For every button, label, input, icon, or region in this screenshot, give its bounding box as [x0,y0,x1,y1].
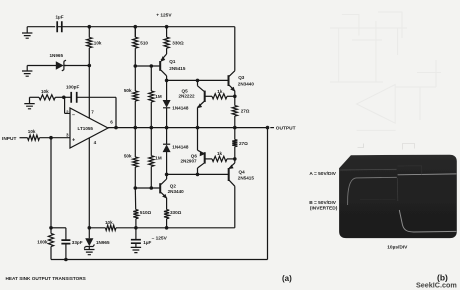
svg-text:50k: 50k [124,88,132,93]
resistor 10k input [20,137,28,139]
svg-text:Q2: Q2 [170,183,177,188]
resistor 330 ohm (bottom) [164,210,169,219]
node pin4 / -125V 10k [88,226,92,230]
scope trace step outline [398,166,422,175]
svg-text:1M: 1M [155,155,162,160]
svg-text:330Ω: 330Ω [170,210,182,215]
scope graticule mid faint [360,198,396,200]
svg-text:+: + [72,137,75,143]
capacitor 33pF [51,227,66,229]
capacitor 1uF (top rail decoupling) [57,21,62,32]
svg-text:2N2907: 2N2907 [181,159,198,164]
node rail/10k [88,25,92,29]
scope trace A falling edge [396,178,399,201]
svg-text:HEAT SINK OUTPUT TRANSISTORS: HEAT SINK OUTPUT TRANSISTORS [6,276,86,281]
svg-text:7: 7 [91,109,94,114]
svg-text:SeekIC.com: SeekIC.com [416,280,457,289]
pin 7 [88,66,90,119]
svg-text:1N965: 1N965 [50,53,64,58]
resistor 510 [134,27,136,38]
svg-text:510Ω: 510Ω [140,210,152,215]
svg-text:1N4148: 1N4148 [172,106,189,111]
resistor 100k [48,234,53,247]
svg-text:Q3: Q3 [238,75,245,80]
resistor 1k (lower driver) [205,158,212,160]
svg-text:1N4148: 1N4148 [172,144,189,149]
resistor 510 ohm (bottom) [133,210,138,219]
svg-text:2N3440: 2N3440 [168,189,185,194]
transistor Q5 2N2222 [196,79,200,83]
op-amp U1 LT1055 [70,108,108,148]
svg-text:OUTPUT: OUTPUT [276,126,296,132]
svg-text:10µs/DIV: 10µs/DIV [387,244,408,250]
capacitor 100pF feedback [64,96,71,98]
diode zener 1N965 (top) [56,61,64,70]
wire feedback vertical to output [115,97,117,127]
svg-text:10k: 10k [41,89,49,94]
svg-text:100k: 100k [37,240,48,245]
svg-text:2N3440: 2N3440 [238,81,255,86]
wire feedback bottom run [51,259,268,261]
pin 2 [65,112,70,114]
resistor 50k upper [134,27,136,38]
svg-text:1µF: 1µF [56,15,64,20]
svg-text:1N965: 1N965 [96,240,110,245]
wire pin3 node down [50,138,52,228]
scope trace A rising edge [348,177,397,205]
svg-text:A = 50V/DIV: A = 50V/DIV [309,171,336,177]
svg-text:1k: 1k [217,151,223,156]
svg-text:Q4: Q4 [239,170,246,175]
scope photo (b) [339,155,457,238]
scope trace B high right [398,173,457,176]
svg-text:1µF: 1µF [143,240,151,245]
svg-text:(a): (a) [282,274,292,283]
wire op-amp output row [108,127,268,129]
svg-text:+ 125V: + 125V [156,13,172,19]
svg-text:B = 50V/DIV: B = 50V/DIV [309,200,337,206]
node Q1 collector / row [165,79,169,83]
wire -125V rail [136,227,235,229]
ground (zener row) [26,66,28,72]
transistor Q4 2N5415 [234,159,236,163]
wire zener row [27,65,56,67]
resistor 1M lower [150,128,152,156]
svg-text:27Ω: 27Ω [241,109,250,114]
svg-text:33pF: 33pF [72,240,83,245]
OUTPUT terminal [270,127,274,129]
resistor 10k (-125V feed) [105,225,116,230]
resistor 27 ohm (upper) [234,96,236,105]
svg-text:2N5415: 2N5415 [169,66,186,71]
svg-text:LT1055: LT1055 [78,126,94,131]
svg-text:–: – [72,112,75,118]
transistor Q1 2N5415 [135,65,160,67]
ground (100pF row) [29,97,31,103]
scope trace B high left [340,168,396,171]
node pin2/100pF [62,96,66,100]
svg-text:– 125V: – 125V [152,235,168,241]
wire output down leg [267,128,269,260]
resistor 10k (to ground at pin2) [30,96,40,98]
node rail/510 [134,25,138,29]
node rail/330 +125V [165,25,169,29]
node input/pin3 [49,136,53,140]
svg-text:50k: 50k [124,153,132,158]
resistor 10k (pin7 supply) [88,27,90,38]
wire driver row lower [167,173,229,175]
transistor Q6 2N2907 [197,128,199,151]
resistor 27 ohm (lower) [234,128,236,140]
ghost bleed-through (decorative noise kept minimal) [330,12,441,130]
resistor 330 ohm [166,27,168,38]
svg-text:4: 4 [94,140,97,145]
diode zener 1N965 (bottom) [85,238,93,246]
svg-text:510: 510 [140,41,148,46]
svg-text:10k: 10k [28,129,36,134]
svg-text:2N5415: 2N5415 [238,175,255,180]
svg-text:Q1: Q1 [169,59,176,64]
svg-text:INPUT: INPUT [2,136,16,142]
svg-text:1M: 1M [155,94,162,99]
svg-text:(INVERTED): (INVERTED) [310,206,338,212]
svg-text:2N2222: 2N2222 [179,94,196,99]
transistor Q2 2N3440 [135,187,160,189]
resistor 50k lower [133,157,138,167]
pin 4 [88,138,90,238]
wire top +125V rail [27,26,235,28]
svg-text:2: 2 [66,110,69,115]
transistor Q3 2N3440 [234,27,236,71]
resistor 1M upper [150,66,152,91]
svg-text:27Ω: 27Ω [239,141,248,146]
svg-text:6: 6 [110,120,113,125]
node zener/pin7 [88,64,92,68]
svg-text:1k: 1k [217,89,223,94]
svg-text:330Ω: 330Ω [172,41,184,46]
diode 1N4148 (upper) [166,80,168,100]
diode 1N4148 (lower) [166,128,168,145]
ghost marks above scope [358,144,364,148]
resistor 1k (upper driver) [205,95,212,97]
svg-text:3: 3 [66,132,69,137]
node diode/output row [165,126,169,130]
capacitor 1uF (bottom) [135,228,137,240]
ground top-left [26,27,28,33]
svg-text:10k: 10k [105,220,113,225]
wire driver row upper [167,79,229,81]
svg-text:100pF: 100pF [66,85,79,90]
svg-text:10k: 10k [94,41,102,46]
